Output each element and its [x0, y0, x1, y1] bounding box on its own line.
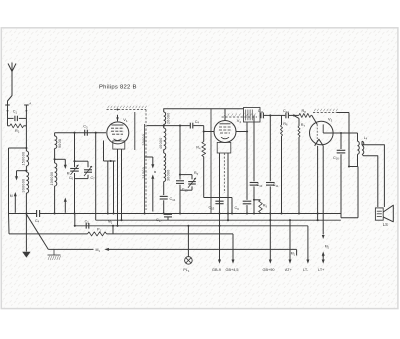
wire shield corner — [337, 113, 350, 168]
V1 top cap lead — [116, 115, 119, 121]
wire speaker feed — [362, 141, 384, 207]
valve V3 — [310, 116, 334, 144]
svg-text:LS: LS — [383, 222, 388, 227]
coil L1 — [22, 148, 29, 171]
wire W2 — [260, 114, 271, 116]
V1 cathode legs — [107, 149, 123, 227]
svg-text:GB+4,5: GB+4,5 — [226, 268, 239, 272]
resistor R9 — [253, 199, 268, 213]
terminal GB+90 — [263, 220, 275, 272]
svg-text:9000: 9000 — [58, 139, 62, 148]
svg-text:M: M — [10, 194, 13, 198]
wire speaker return — [341, 167, 358, 218]
shield line V2 — [222, 114, 257, 118]
V1 electrodes — [111, 125, 125, 149]
svg-text:GB+90: GB+90 — [263, 268, 275, 272]
V3 anode wire — [333, 132, 357, 134]
capacitor C17 — [156, 214, 172, 223]
switch M contact — [15, 170, 27, 181]
capacitor C10 — [250, 115, 263, 214]
terminal A post right — [24, 102, 31, 148]
capacitor C16 — [333, 133, 345, 218]
capacitor C6 trimmer — [69, 133, 79, 215]
heater bus — [96, 219, 341, 221]
V1 anode lead — [134, 112, 136, 150]
wire IF secondary — [147, 125, 190, 127]
wire drop M2 — [112, 225, 114, 234]
coil L5 column — [142, 124, 153, 215]
switch lever — [26, 214, 48, 249]
earth ground — [22, 212, 30, 257]
V2 anode wire — [236, 122, 248, 132]
svg-text:AT+: AT+ — [285, 268, 293, 272]
capacitor C13 — [209, 198, 234, 215]
trimmer capacitor IF — [180, 175, 196, 191]
svg-text:31500: 31500 — [142, 167, 146, 179]
node grid wire junctions — [73, 132, 96, 134]
svg-text:20000: 20000 — [167, 113, 171, 125]
shield box V1 — [107, 106, 147, 210]
chassis ground — [48, 249, 61, 260]
terminal GB+4,5 — [226, 234, 239, 272]
capacitor C14 — [160, 196, 176, 214]
terminal post left — [5, 105, 10, 118]
resistor R1 — [8, 118, 27, 133]
resistor R8 — [294, 109, 312, 117]
capacitor C3 — [83, 125, 88, 136]
node antenna junction — [9, 147, 28, 214]
IF transformer T2 — [244, 108, 261, 123]
svg-text:100000: 100000 — [50, 172, 54, 186]
svg-text:LT-: LT- — [303, 268, 309, 272]
wire anode supply — [210, 109, 212, 214]
svg-text:30000: 30000 — [167, 170, 171, 182]
capacitor C15 — [176, 126, 188, 215]
V3 legs — [317, 146, 325, 239]
capacitor C1 — [8, 110, 27, 122]
switch M3 — [151, 157, 157, 212]
switch arm right — [64, 172, 70, 213]
svg-text:40000: 40000 — [159, 138, 163, 150]
coil L3 column — [159, 109, 244, 195]
coil L1b — [22, 171, 29, 214]
V2 electrodes — [217, 109, 231, 153]
capacitor C4 — [190, 120, 203, 129]
capacitor C4 bus — [35, 210, 40, 224]
valve V2 — [214, 118, 241, 143]
trimmer capacitor — [75, 161, 96, 181]
svg-text:300000: 300000 — [22, 179, 26, 193]
capacitor C11 — [258, 109, 264, 118]
svg-text:A: A — [29, 102, 31, 106]
capacitor C12 — [270, 109, 295, 118]
output transformer — [349, 133, 368, 167]
switch wire M1 — [48, 248, 296, 256]
resistor R7 — [294, 115, 306, 214]
terminal LT- — [303, 226, 309, 272]
coil L2 — [50, 133, 106, 215]
capacitor C11 shunt — [266, 115, 279, 221]
title Philips 822 B — [99, 85, 137, 91]
main chassis bus — [9, 213, 342, 215]
svg-text:30000: 30000 — [142, 134, 146, 146]
resistor R6 — [280, 115, 288, 214]
svg-text:LT+: LT+ — [318, 268, 325, 272]
wire V2 grid — [203, 126, 215, 133]
svg-text:Philips 822 B: Philips 822 B — [99, 85, 137, 91]
capacitor C5 branch — [74, 214, 113, 229]
switch M arm — [10, 192, 17, 213]
terminal GB-9 — [212, 212, 221, 272]
wire heater drop — [95, 133, 97, 221]
lamp PL1 — [183, 225, 192, 273]
terminal AT+ — [285, 219, 296, 272]
switch contact right — [55, 159, 67, 169]
terminal LT+ — [318, 245, 330, 273]
potentiometer P1 — [9, 214, 234, 236]
valve V1 — [107, 117, 129, 144]
loudspeaker LS — [375, 205, 393, 227]
svg-text:150000: 150000 — [22, 152, 26, 166]
shield line V3 — [313, 109, 338, 113]
antenna — [8, 63, 17, 105]
capacitor C9 — [235, 132, 252, 215]
resistor R4 — [194, 132, 220, 198]
V1 grid return wire — [104, 141, 116, 163]
heater bus lower — [75, 225, 308, 227]
V3 electrodes — [312, 115, 333, 145]
V2 cathode legs — [220, 153, 230, 257]
svg-text:GB-9: GB-9 — [212, 268, 221, 272]
